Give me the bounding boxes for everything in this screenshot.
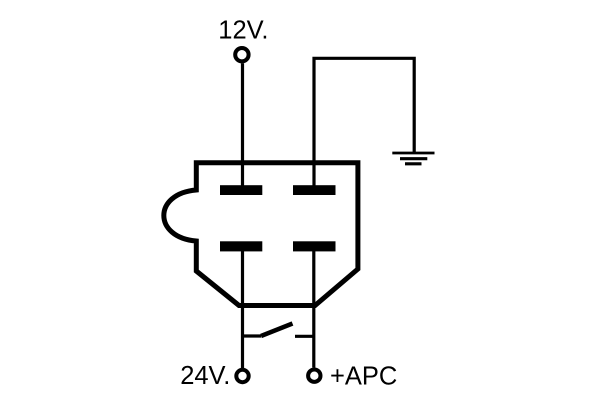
switch S1 right contact stub — [295, 335, 314, 338]
ground symbol — [392, 153, 434, 164]
wire pin 2 to ground — [314, 58, 414, 187]
wire 12V terminal to pin 1 — [241, 63, 244, 187]
switch S1 blade — [261, 324, 293, 337]
wire pin 4 to +APC terminal — [312, 250, 315, 368]
terminal circle +APC — [308, 370, 320, 382]
wire pin 3 to 24V terminal — [241, 250, 244, 368]
pin 2 (top-right) — [293, 185, 336, 195]
pin 4 (bottom-right) — [293, 241, 336, 251]
svg-text:12V.: 12V. — [218, 17, 268, 45]
switch S1 left stub — [243, 334, 262, 337]
terminal circle 12V — [235, 48, 248, 61]
svg-text:24V.: 24V. — [180, 362, 230, 390]
svg-text:+APC: +APC — [330, 363, 397, 391]
connector body X1 — [164, 163, 358, 306]
pin 3 (bottom-left) — [220, 241, 262, 251]
terminal circle 24V — [236, 370, 248, 382]
pin 1 (top-left) — [220, 185, 262, 195]
